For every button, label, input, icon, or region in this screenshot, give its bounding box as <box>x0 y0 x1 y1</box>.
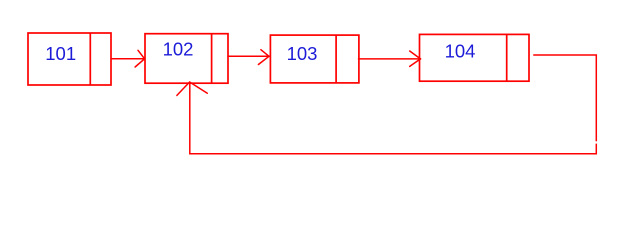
svg-text:102: 102 <box>163 38 194 59</box>
svg-text:104: 104 <box>445 41 476 62</box>
svg-text:101: 101 <box>45 43 76 64</box>
svg-text:103: 103 <box>287 43 318 64</box>
